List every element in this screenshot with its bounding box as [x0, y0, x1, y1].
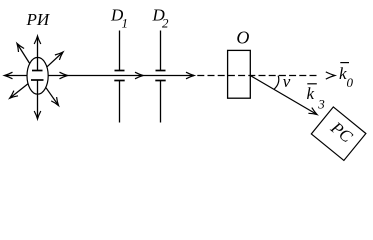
svg-text:РИ: РИ [26, 10, 51, 29]
svg-text:ν: ν [283, 72, 291, 91]
svg-text:1: 1 [122, 16, 129, 31]
svg-text:0: 0 [347, 75, 354, 90]
svg-text:k: k [307, 84, 315, 103]
svg-text:O: O [236, 28, 249, 48]
svg-text:3: 3 [317, 97, 325, 112]
svg-text:2: 2 [162, 16, 169, 31]
